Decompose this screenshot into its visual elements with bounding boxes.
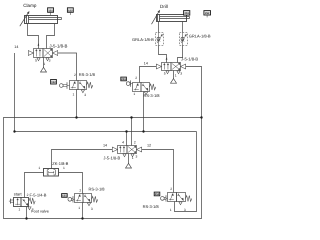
roller 1S1: [68, 197, 72, 201]
svg-text:2: 2: [134, 140, 136, 144]
wire: GRLA1 out to drill valve port 4: [159, 45, 167, 62]
svg-text:3: 3: [49, 59, 51, 63]
limit valve 1S1 RS-3-1/8: [75, 194, 84, 203]
wire: line B drop to limit valve 2S2 supply: [175, 132, 197, 212]
position tick drill 1: [186, 16, 188, 18]
wire: clamp cylinder left port to valve port 4: [28, 24, 39, 49]
wire: GRLA2 out to drill valve port 2: [178, 45, 183, 62]
svg-text:2S2: 2S2: [205, 12, 210, 15]
svg-text:2S1: 2S1: [121, 78, 126, 81]
wire: limit valve 2S1 output to drill valve pilot 14: [140, 67, 157, 83]
roller 2S1: [126, 82, 130, 86]
svg-text:RS-3-1/8: RS-3-1/8: [89, 187, 106, 192]
svg-text:12: 12: [147, 143, 151, 147]
wire: 1V1 port 1 supply stub: [43, 58, 45, 68]
wire: clamp valve pilot 12 from limit valve 1S2: [58, 53, 77, 81]
wire: drill cyl right port to GRLA2: [182, 22, 184, 33]
svg-text:1S2: 1S2: [51, 81, 56, 84]
svg-text:1: 1: [73, 93, 75, 97]
wire: group line B: [15, 131, 197, 133]
roller 1S2: [59, 84, 63, 88]
svg-text:J-5-1/8-B: J-5-1/8-B: [103, 155, 120, 160]
cylinder Clamp (double acting, adjustable cushioning): [25, 16, 58, 24]
foot pedal actuator: [9, 199, 11, 204]
exhaust 5 1V1: [37, 58, 40, 61]
svg-text:1S1: 1S1: [62, 194, 67, 197]
svg-text:Foot valve: Foot valve: [31, 210, 49, 214]
flow control GRLA-1/8-B right: [180, 33, 188, 46]
limit valve 1S2 RS-3-1/8: [70, 81, 79, 90]
valve 1V1 J-5-1/8-B (clamp control): [34, 49, 44, 58]
two-pressure valve ZK-1/8-B (AND): [44, 169, 59, 177]
junction A / drill pilot riser: [200, 116, 202, 118]
valve 2V1 J-5-1/8-B (drill control): [162, 63, 172, 71]
foot valve F-3-1/4-B (start): [14, 198, 22, 207]
svg-text:GRLA-1/8-B: GRLA-1/8-B: [132, 37, 154, 42]
exhaust 3 1V1: [46, 58, 49, 61]
spring 1S2: [87, 82, 93, 88]
compressed air supply 1V1: [41, 67, 47, 72]
compressed air supply 2V1: [171, 79, 177, 84]
svg-text:3: 3: [91, 207, 93, 211]
svg-text:3: 3: [184, 208, 186, 212]
svg-text:RS-3-1/8: RS-3-1/8: [79, 72, 96, 77]
svg-text:2S2: 2S2: [155, 193, 160, 196]
svg-text:1S2: 1S2: [68, 9, 73, 12]
tag box 1S1: [62, 194, 68, 198]
tag box 2S1: [121, 77, 127, 81]
svg-text:1S1: 1S1: [48, 9, 53, 12]
svg-text:1: 1: [63, 166, 65, 170]
exhaust 3 0V1: [131, 154, 134, 157]
svg-text:1: 1: [78, 206, 80, 210]
junction A / memory port 2: [130, 116, 132, 118]
exhaust 5 0V1: [123, 154, 126, 157]
svg-text:4: 4: [166, 57, 168, 61]
junction B / 2S1 supply: [142, 130, 144, 132]
tag box 1S2: [51, 80, 57, 85]
spring 1S1: [92, 196, 98, 202]
position tick clamp 2: [69, 13, 71, 15]
svg-text:J-5-1/8-B: J-5-1/8-B: [49, 43, 67, 48]
svg-text:1: 1: [133, 92, 135, 96]
svg-text:5: 5: [35, 59, 37, 63]
spring 2S1: [150, 84, 156, 90]
flow control GRLA-1/8-B left: [156, 33, 164, 46]
wire: 1S2 supply from line A: [76, 90, 78, 118]
junction A / 1S2 supply: [75, 116, 77, 118]
wire: group line A loop (left edge / bottom wrap / right riser to drill pilot 12): [4, 67, 202, 219]
svg-text:14: 14: [144, 61, 148, 65]
wire: drill cyl left port to GRLA1: [158, 22, 160, 33]
exhaust 1S1: [87, 203, 90, 206]
junction B / clamp pilot riser: [13, 130, 15, 132]
svg-text:2: 2: [27, 193, 29, 197]
compressed air supply 0V1: [126, 163, 132, 168]
svg-text:3: 3: [136, 155, 138, 159]
marker box drill pos 1: [184, 11, 190, 16]
svg-text:1: 1: [38, 166, 40, 170]
junction wrap / 1S1 supply: [81, 217, 83, 219]
wire: AND valve output to memory valve pilot 14: [52, 150, 113, 169]
wire: 0V1 port 1 supply stub: [128, 154, 130, 164]
position tick drill 2: [206, 15, 208, 17]
exhaust 1S2: [81, 90, 84, 93]
roller 2S2: [161, 197, 165, 201]
spring foot valve: [29, 198, 35, 204]
cylinder Drill (double acting, adjustable cushioning): [157, 15, 187, 22]
cushioning adjust arrow (clamp): [20, 12, 29, 26]
wire: 2S1 supply from line B: [143, 92, 145, 132]
marker box drill pos 2: [204, 11, 211, 15]
wire: clamp cylinder right port to valve port 2: [47, 24, 55, 49]
wire: memory valve port 2 to line A: [131, 118, 133, 146]
spring 2S2: [186, 196, 192, 202]
exhaust 2S2: [179, 202, 182, 205]
svg-text:14: 14: [14, 45, 18, 49]
svg-text:2: 2: [135, 76, 137, 80]
limit valve 2S1 RS-3-1/8: [133, 83, 142, 92]
svg-text:3: 3: [180, 71, 182, 75]
svg-text:3: 3: [84, 93, 86, 97]
svg-text:F-5-1/4-B: F-5-1/4-B: [30, 192, 47, 197]
svg-text:2: 2: [170, 187, 172, 191]
wire: foot valve output to AND valve left input: [25, 173, 44, 198]
exhaust 2S1: [144, 92, 147, 95]
cushioning adjust arrow (drill): [152, 11, 160, 24]
svg-text:5: 5: [164, 72, 166, 76]
wire: clamp valve pilot 14 riser: [14, 53, 16, 132]
tag box 2S2: [154, 192, 160, 196]
svg-text:1: 1: [18, 207, 20, 211]
wire: 1S1 supply from bottom wrap: [82, 203, 84, 219]
svg-text:Clamp: Clamp: [23, 3, 37, 8]
position tick clamp 1: [50, 13, 52, 15]
valve 0V1 J-5-1/8-B (memory): [118, 146, 128, 154]
wire: 2V1 port 1 supply stub: [173, 71, 175, 79]
limit valve 2S2 RS-3-1/8: [168, 193, 177, 202]
junction wrap / foot valve supply: [25, 217, 27, 219]
svg-text:1: 1: [132, 156, 134, 160]
wire: foot valve supply from bottom wrap: [26, 207, 28, 219]
wire: memory valve port 4 to line B: [126, 132, 128, 146]
svg-text:ZK-1/8-B: ZK-1/8-B: [52, 161, 68, 166]
svg-text:14: 14: [103, 143, 107, 147]
marker box clamp extended: [67, 8, 73, 13]
svg-text:RS-3-1/8: RS-3-1/8: [143, 204, 160, 209]
junction B / memory port 4: [125, 130, 127, 132]
svg-text:2S1: 2S1: [184, 12, 189, 15]
svg-text:4: 4: [122, 140, 124, 144]
svg-text:start: start: [14, 192, 23, 197]
svg-text:1: 1: [170, 208, 172, 212]
svg-text:Drill: Drill: [160, 4, 168, 9]
marker box clamp retracted: [48, 8, 54, 13]
exhaust 5 2V1: [166, 71, 169, 74]
svg-text:J-5-1/8-B: J-5-1/8-B: [181, 56, 198, 61]
exhaust 3 2V1: [177, 71, 180, 74]
svg-text:4: 4: [37, 43, 39, 47]
svg-text:2: 2: [74, 73, 76, 77]
wire: limit valve 1S1 output to AND valve right input: [59, 173, 83, 194]
svg-text:RS-3-1/8: RS-3-1/8: [144, 93, 161, 98]
svg-text:2: 2: [79, 189, 81, 193]
svg-text:1: 1: [175, 73, 177, 77]
wire: memory valve pilot 12 from limit valve 2S2: [142, 150, 174, 193]
exhaust foot valve: [28, 207, 31, 210]
svg-text:GRLA-1/8-B: GRLA-1/8-B: [189, 34, 211, 39]
